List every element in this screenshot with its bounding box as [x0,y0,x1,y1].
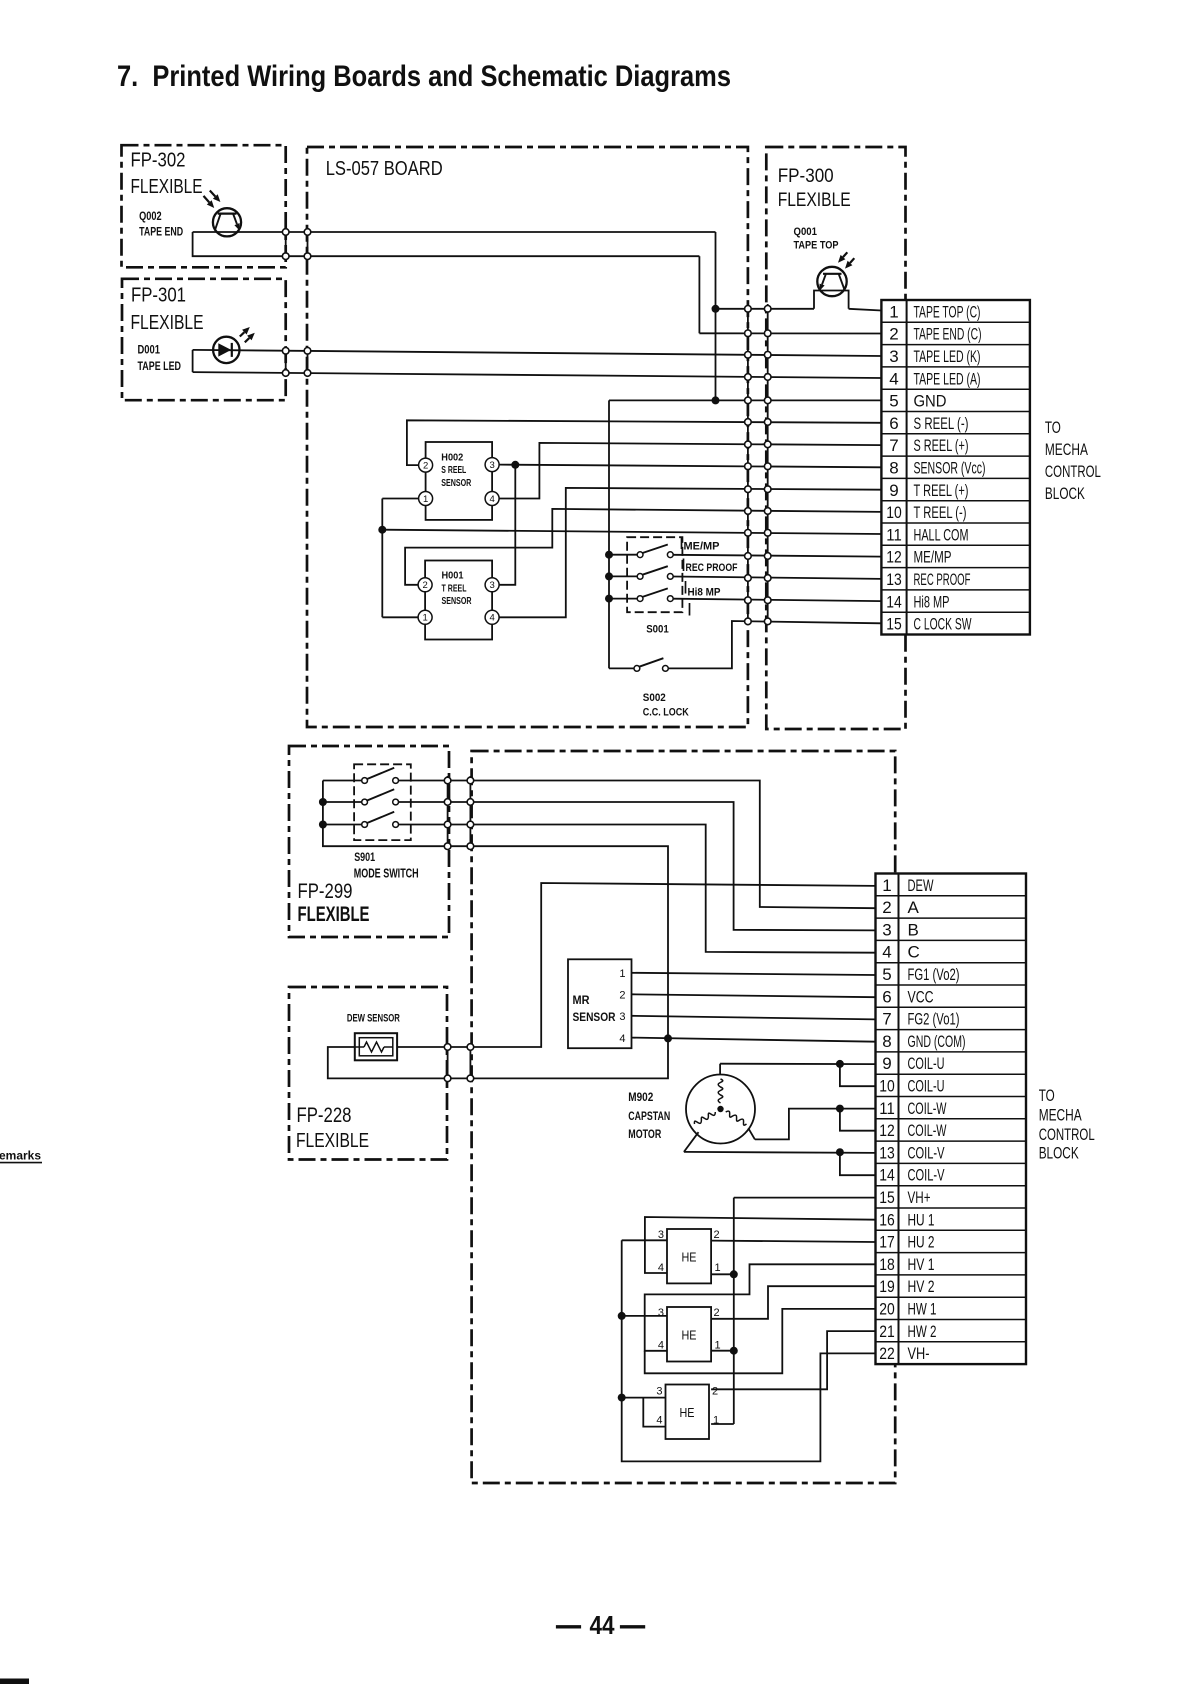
svg-text:ME/MP: ME/MP [914,548,952,567]
svg-text:HW 2: HW 2 [908,1322,937,1341]
svg-text:TAPE TOP (C): TAPE TOP (C) [914,302,981,321]
svg-text:T REEL (-): T REEL (-) [914,503,967,522]
svg-text:COIL-W: COIL-W [908,1121,947,1140]
connector CN to mecha control block (pins 1-22) [876,874,1027,1365]
svg-text:TAPE END: TAPE END [139,227,183,239]
wire pin 3 TAPE LED (K) [193,350,882,356]
svg-text:TAPE LED (K): TAPE LED (K) [914,347,981,366]
hall element HE3 [656,1385,719,1440]
svg-text:2: 2 [889,325,898,344]
svg-text:COIL-W: COIL-W [908,1099,947,1118]
svg-text:emarks: emarks [0,1149,41,1163]
LS-057 board outline [307,147,748,727]
wire vertical junction to GND net [715,232,717,400]
wire pin 9 T REEL (+) from H001 pin4 [499,488,881,617]
flex joint pads FP-299/FP-228 to lower board [444,777,473,1081]
svg-text:SENSOR (Vcc): SENSOR (Vcc) [914,458,986,477]
svg-text:15: 15 [886,615,902,634]
S001 switch labels [682,537,738,616]
wire Q002 emitter to junction (TAPE END line) [193,231,716,233]
svg-text:3: 3 [882,920,891,939]
svg-text:BLOCK: BLOCK [1045,484,1085,503]
svg-text:7: 7 [889,436,898,455]
svg-text:CONTROL: CONTROL [1039,1125,1095,1144]
svg-text:GND: GND [914,392,947,411]
wire pin 20 HW 1 from HE3 pin4 [645,1309,876,1373]
switch block S001 outline [627,537,682,612]
svg-text:12: 12 [886,548,902,567]
svg-text:3: 3 [658,1307,664,1319]
svg-text:S002: S002 [643,692,666,704]
svg-text:4: 4 [489,494,494,505]
wire pin 6 VCC from MR pin2 [632,994,876,997]
svg-text:2: 2 [423,461,428,472]
wire pin 14 COIL-V branch [840,1152,876,1175]
wire pin 12 ME/MP [673,555,881,557]
hall sensor H002 S REEL SENSOR [419,442,500,520]
svg-text:FLEXIBLE: FLEXIBLE [298,903,370,926]
svg-text:1: 1 [713,1415,719,1427]
switch S001-b REC PROOF [637,566,673,579]
svg-text:HALL COM: HALL COM [914,525,969,544]
connector CN to mecha control block (pins 1-15) [881,300,1030,635]
wire pin 11 COIL-W from motor [748,1109,875,1140]
svg-text:FLEXIBLE: FLEXIBLE [131,175,203,198]
wire HE3 pin4 link [643,1398,665,1427]
wire S901 left contact stubs [323,781,362,825]
svg-text:8: 8 [882,1032,891,1051]
wire D001 anode loop [192,350,194,372]
svg-text:18: 18 [879,1255,895,1274]
svg-text:C: C [908,943,920,962]
wire Vcc branch to H001 pin3 [499,465,515,585]
switch S901-b [362,789,399,805]
svg-text:2: 2 [714,1229,720,1241]
wire pin 2 TAPE END (C) [699,332,881,334]
Q002 designator label [139,211,183,239]
svg-text:FLEXIBLE: FLEXIBLE [131,311,204,334]
svg-text:FG2 (Vo1): FG2 (Vo1) [908,1010,960,1029]
svg-text:COIL-V: COIL-V [908,1143,945,1162]
svg-text:10: 10 [879,1077,895,1096]
svg-text:FLEXIBLE: FLEXIBLE [778,189,851,211]
wire S002 to GND rail [609,667,634,669]
svg-text:A: A [908,898,920,917]
svg-text:21: 21 [879,1322,895,1341]
svg-text:S901: S901 [354,850,375,864]
wire Q002 return loop to pin 2 net [193,232,700,256]
svg-text:S REEL (+): S REEL (+) [914,436,969,455]
wire S901 common rail / GND(COM) net / dew sensor return [323,781,668,1079]
wire pin 21 HW 2 from HE3 pin2 [711,1331,875,1389]
svg-text:SENSOR: SENSOR [441,477,471,489]
wire pin 4 TAPE LED (A) [193,372,882,378]
flex edge conductor segments [286,228,768,1082]
flex joint pads FP-302/FP-301 to LS-057 [282,229,310,377]
wire pin 1 TAPE TOP (C) [716,308,815,310]
svg-text:COIL-U: COIL-U [908,1054,945,1073]
svg-text:20: 20 [879,1300,895,1319]
svg-text:S REEL: S REEL [441,464,466,476]
svg-text:3: 3 [658,1229,664,1241]
svg-text:H002: H002 [441,452,463,464]
svg-text:2: 2 [714,1307,720,1319]
wire pin 7 FG2 (Vo1) from MR pin3 [632,1016,876,1020]
wire GND rail to S001/S002 [608,400,610,668]
svg-text:VH-: VH- [908,1344,930,1363]
svg-text:3: 3 [619,1011,625,1023]
svg-text:FP-299: FP-299 [298,880,353,903]
wire pin 11 HALL COM [382,530,881,534]
svg-text:Hi8 MP: Hi8 MP [914,592,950,611]
svg-text:TAPE END (C): TAPE END (C) [914,325,982,344]
wire pin 13 REC PROOF [673,577,881,579]
svg-text:4: 4 [889,369,898,388]
svg-text:3: 3 [889,347,898,366]
svg-text:HU 2: HU 2 [908,1233,935,1252]
svg-text:SENSOR: SENSOR [442,595,472,607]
svg-text:12: 12 [879,1121,895,1140]
svg-text:COIL-V: COIL-V [908,1166,945,1185]
svg-text:Hi8 MP: Hi8 MP [688,587,721,599]
svg-text:1: 1 [423,494,428,505]
svg-text:4: 4 [658,1340,664,1352]
svg-text:1: 1 [715,1262,721,1274]
wire pin 1 DEW from dew sensor [397,883,875,1047]
svg-text:3: 3 [656,1386,662,1398]
svg-text:5: 5 [882,965,891,984]
hall element HE2 [658,1307,721,1362]
svg-text:HW 1: HW 1 [908,1300,937,1319]
svg-text:13: 13 [879,1143,895,1162]
wire pin 8 GND (COM) from MR pin4 [632,1038,876,1042]
wire pin 6 S REEL (-) from H002 pin2 [407,420,882,465]
svg-text:REC PROOF: REC PROOF [686,562,738,574]
FP-300 flexible board outline [766,147,905,729]
FP-301 flexible board outline [122,279,286,400]
svg-text:CAPSTAN: CAPSTAN [628,1109,670,1123]
svg-text:FP-302: FP-302 [131,150,186,172]
svg-text:2: 2 [712,1386,718,1398]
TO MECHA CONTROL BLOCK label (upper) [1045,418,1101,503]
svg-text:BLOCK: BLOCK [1039,1144,1079,1163]
svg-text:4: 4 [882,943,891,962]
wire pin 12 COIL-W branch [840,1109,876,1131]
wire pin 13 COIL-V from motor [684,1132,876,1153]
svg-text:REC PROOF: REC PROOF [914,570,971,589]
svg-text:DEW: DEW [908,876,934,895]
svg-text:11: 11 [879,1099,895,1118]
FP-228 flexible board outline [289,987,447,1160]
svg-text:Q002: Q002 [139,211,162,223]
svg-text:1: 1 [619,968,625,980]
svg-text:TAPE LED: TAPE LED [138,361,182,373]
wire pin 5 FG1 (Vo2) from MR pin1 [632,973,876,975]
svg-text:H001: H001 [442,570,464,582]
svg-text:2: 2 [882,898,891,917]
flex joint pads LS-057 to FP-300 [745,306,771,625]
svg-text:HU 1: HU 1 [908,1210,935,1229]
svg-text:C LOCK SW: C LOCK SW [914,615,972,634]
svg-text:10: 10 [886,503,902,522]
svg-text:MECHA: MECHA [1039,1106,1082,1125]
svg-text:S001: S001 [646,624,669,636]
TO MECHA CONTROL BLOCK label (lower) [1039,1086,1095,1163]
wire pin 16 HU 1 from HE1 pin4 [645,1217,876,1273]
svg-text:8: 8 [889,458,898,477]
svg-text:4: 4 [658,1262,664,1274]
svg-text:COIL-U: COIL-U [908,1077,945,1096]
wire S001 common stubs from GND rail [609,555,637,599]
svg-text:HE: HE [682,1251,697,1265]
svg-text:FG1 (Vo2): FG1 (Vo2) [908,965,960,984]
wire pin 10 COIL-U branch [840,1064,876,1086]
wire pin 15 VH+ rail [711,1198,875,1424]
svg-text:19: 19 [879,1277,895,1296]
svg-text:MODE SWITCH: MODE SWITCH [354,867,419,881]
svg-text:HE: HE [682,1329,697,1343]
hall sensor H001 T REEL SENSOR [418,561,499,640]
switch S002 C.C.LOCK [634,658,668,671]
dew sensor [355,1033,397,1060]
svg-text:Q001: Q001 [794,226,818,238]
wire HALL COM to H002 pin1 / H001 pin1 [382,499,418,618]
wire pin 5 GND [609,399,881,401]
svg-text:4: 4 [489,613,494,624]
page number 44 [556,1610,645,1640]
wire pin 19 HV 2 from HE2 pin2 [711,1286,875,1319]
svg-text:T REEL (+): T REEL (+) [914,481,969,500]
svg-text:9: 9 [889,481,898,500]
wire pin 4 C from S901-c [399,825,876,953]
svg-text:D001: D001 [138,345,161,357]
switch S901-a [362,768,399,784]
svg-text:SENSOR: SENSOR [573,1010,616,1024]
wire pin 18 HV 1 from HE2 pin4 [645,1264,876,1351]
phototransistor Q001 TAPE TOP [814,252,854,308]
svg-text:FP-228: FP-228 [297,1104,352,1127]
switch S001-a ME/MP [637,545,673,558]
svg-text:VCC: VCC [908,987,934,1006]
switch S001-c Hi8 MP [637,588,673,601]
bottom left page mark [0,1679,29,1684]
cut-off hyperlink text emarks [0,1149,42,1163]
svg-text:5: 5 [889,392,898,411]
wire hall common rail to VH- pin 22 [622,1240,876,1461]
motor M902 CAPSTAN MOTOR [686,1075,755,1144]
MR sensor [568,959,632,1048]
Q001 designator label [794,226,839,252]
svg-text:MECHA: MECHA [1045,440,1088,459]
svg-text:CONTROL: CONTROL [1045,462,1101,481]
svg-text:HV 1: HV 1 [908,1255,935,1274]
svg-text:17: 17 [879,1233,895,1252]
LED D001 TAPE LED [213,327,255,363]
phototransistor Q002 TAPE END [204,191,242,237]
svg-text:MOTOR: MOTOR [628,1127,661,1141]
wire pin 14 Hi8 MP [673,599,881,601]
svg-text:1: 1 [882,876,891,895]
svg-text:HV 2: HV 2 [908,1277,935,1296]
svg-text:22: 22 [879,1344,895,1363]
svg-text:LS-057 BOARD: LS-057 BOARD [326,158,443,180]
svg-text:T REEL: T REEL [442,583,467,595]
wire pin 10 T REEL (-) from H001 pin2 [405,509,881,585]
svg-text:15: 15 [879,1188,895,1207]
svg-text:1: 1 [889,302,898,321]
svg-text:7: 7 [882,1010,891,1029]
svg-text:MR: MR [573,993,590,1007]
svg-text:C.C. LOCK: C.C. LOCK [643,707,689,719]
hall element HE1 [658,1229,721,1283]
svg-text:FP-301: FP-301 [131,285,186,307]
svg-text:11: 11 [886,525,902,544]
wire pin 15 C LOCK SW from S002 [668,621,881,668]
svg-text:1: 1 [422,613,427,624]
svg-text:TAPE TOP: TAPE TOP [794,240,839,252]
svg-text:6: 6 [889,414,898,433]
svg-text:3: 3 [489,580,494,591]
svg-text:DEW SENSOR: DEW SENSOR [347,1013,400,1025]
wire pin 17 HU 2 from HE1 pin2 [711,1241,875,1242]
svg-text:TAPE LED (A): TAPE LED (A) [914,369,981,388]
svg-text:2: 2 [422,580,427,591]
svg-text:4: 4 [656,1415,662,1427]
wire pin 8 SENSOR (Vcc) from H002 pin3 [499,465,881,468]
svg-text:3: 3 [489,460,494,471]
D001 designator label [138,345,182,374]
svg-text:TO: TO [1039,1086,1055,1105]
svg-text:4: 4 [619,1033,625,1045]
svg-text:FLEXIBLE: FLEXIBLE [296,1129,369,1152]
svg-text:9: 9 [882,1054,891,1073]
svg-text:7. Printed Wiring Boards and: 7. Printed Wiring Boards and Schematic D… [117,60,731,93]
svg-text:14: 14 [879,1166,895,1185]
svg-text:GND (COM): GND (COM) [908,1032,966,1051]
svg-text:VH+: VH+ [908,1188,931,1207]
M902 designator [628,1090,670,1141]
svg-text:1: 1 [715,1340,721,1352]
S002 designator [643,692,689,719]
wire pin 9 COIL-U from motor [720,1064,875,1075]
switch S901-c [362,812,399,828]
svg-text:13: 13 [886,570,902,589]
wire pin 2 A from S901-a [399,781,876,909]
svg-text:44: 44 [590,1610,615,1640]
FP-299 flexible board outline [289,746,449,937]
LS-057 lower board outline (capstan section) [472,751,896,1483]
svg-text:FP-300: FP-300 [778,165,834,187]
S901 designator [354,850,419,881]
svg-text:HE: HE [680,1406,695,1420]
svg-text:S REEL (-): S REEL (-) [914,414,969,433]
svg-text:TO: TO [1045,418,1061,437]
svg-text:M902: M902 [628,1090,653,1104]
svg-text:2: 2 [619,990,625,1002]
svg-text:B: B [908,920,919,939]
wire vertical to pin 2 [698,256,700,333]
svg-text:14: 14 [886,592,902,611]
svg-text:6: 6 [882,987,891,1006]
wire pin 7 S REEL (+) from H002 pin4 [499,443,881,499]
wire pin 3 B from S901-b [399,802,876,930]
svg-text:16: 16 [879,1210,895,1229]
FP-302 flexible board outline [122,145,286,267]
svg-text:ME/MP: ME/MP [684,541,720,553]
switch block S901 outline [354,764,411,840]
